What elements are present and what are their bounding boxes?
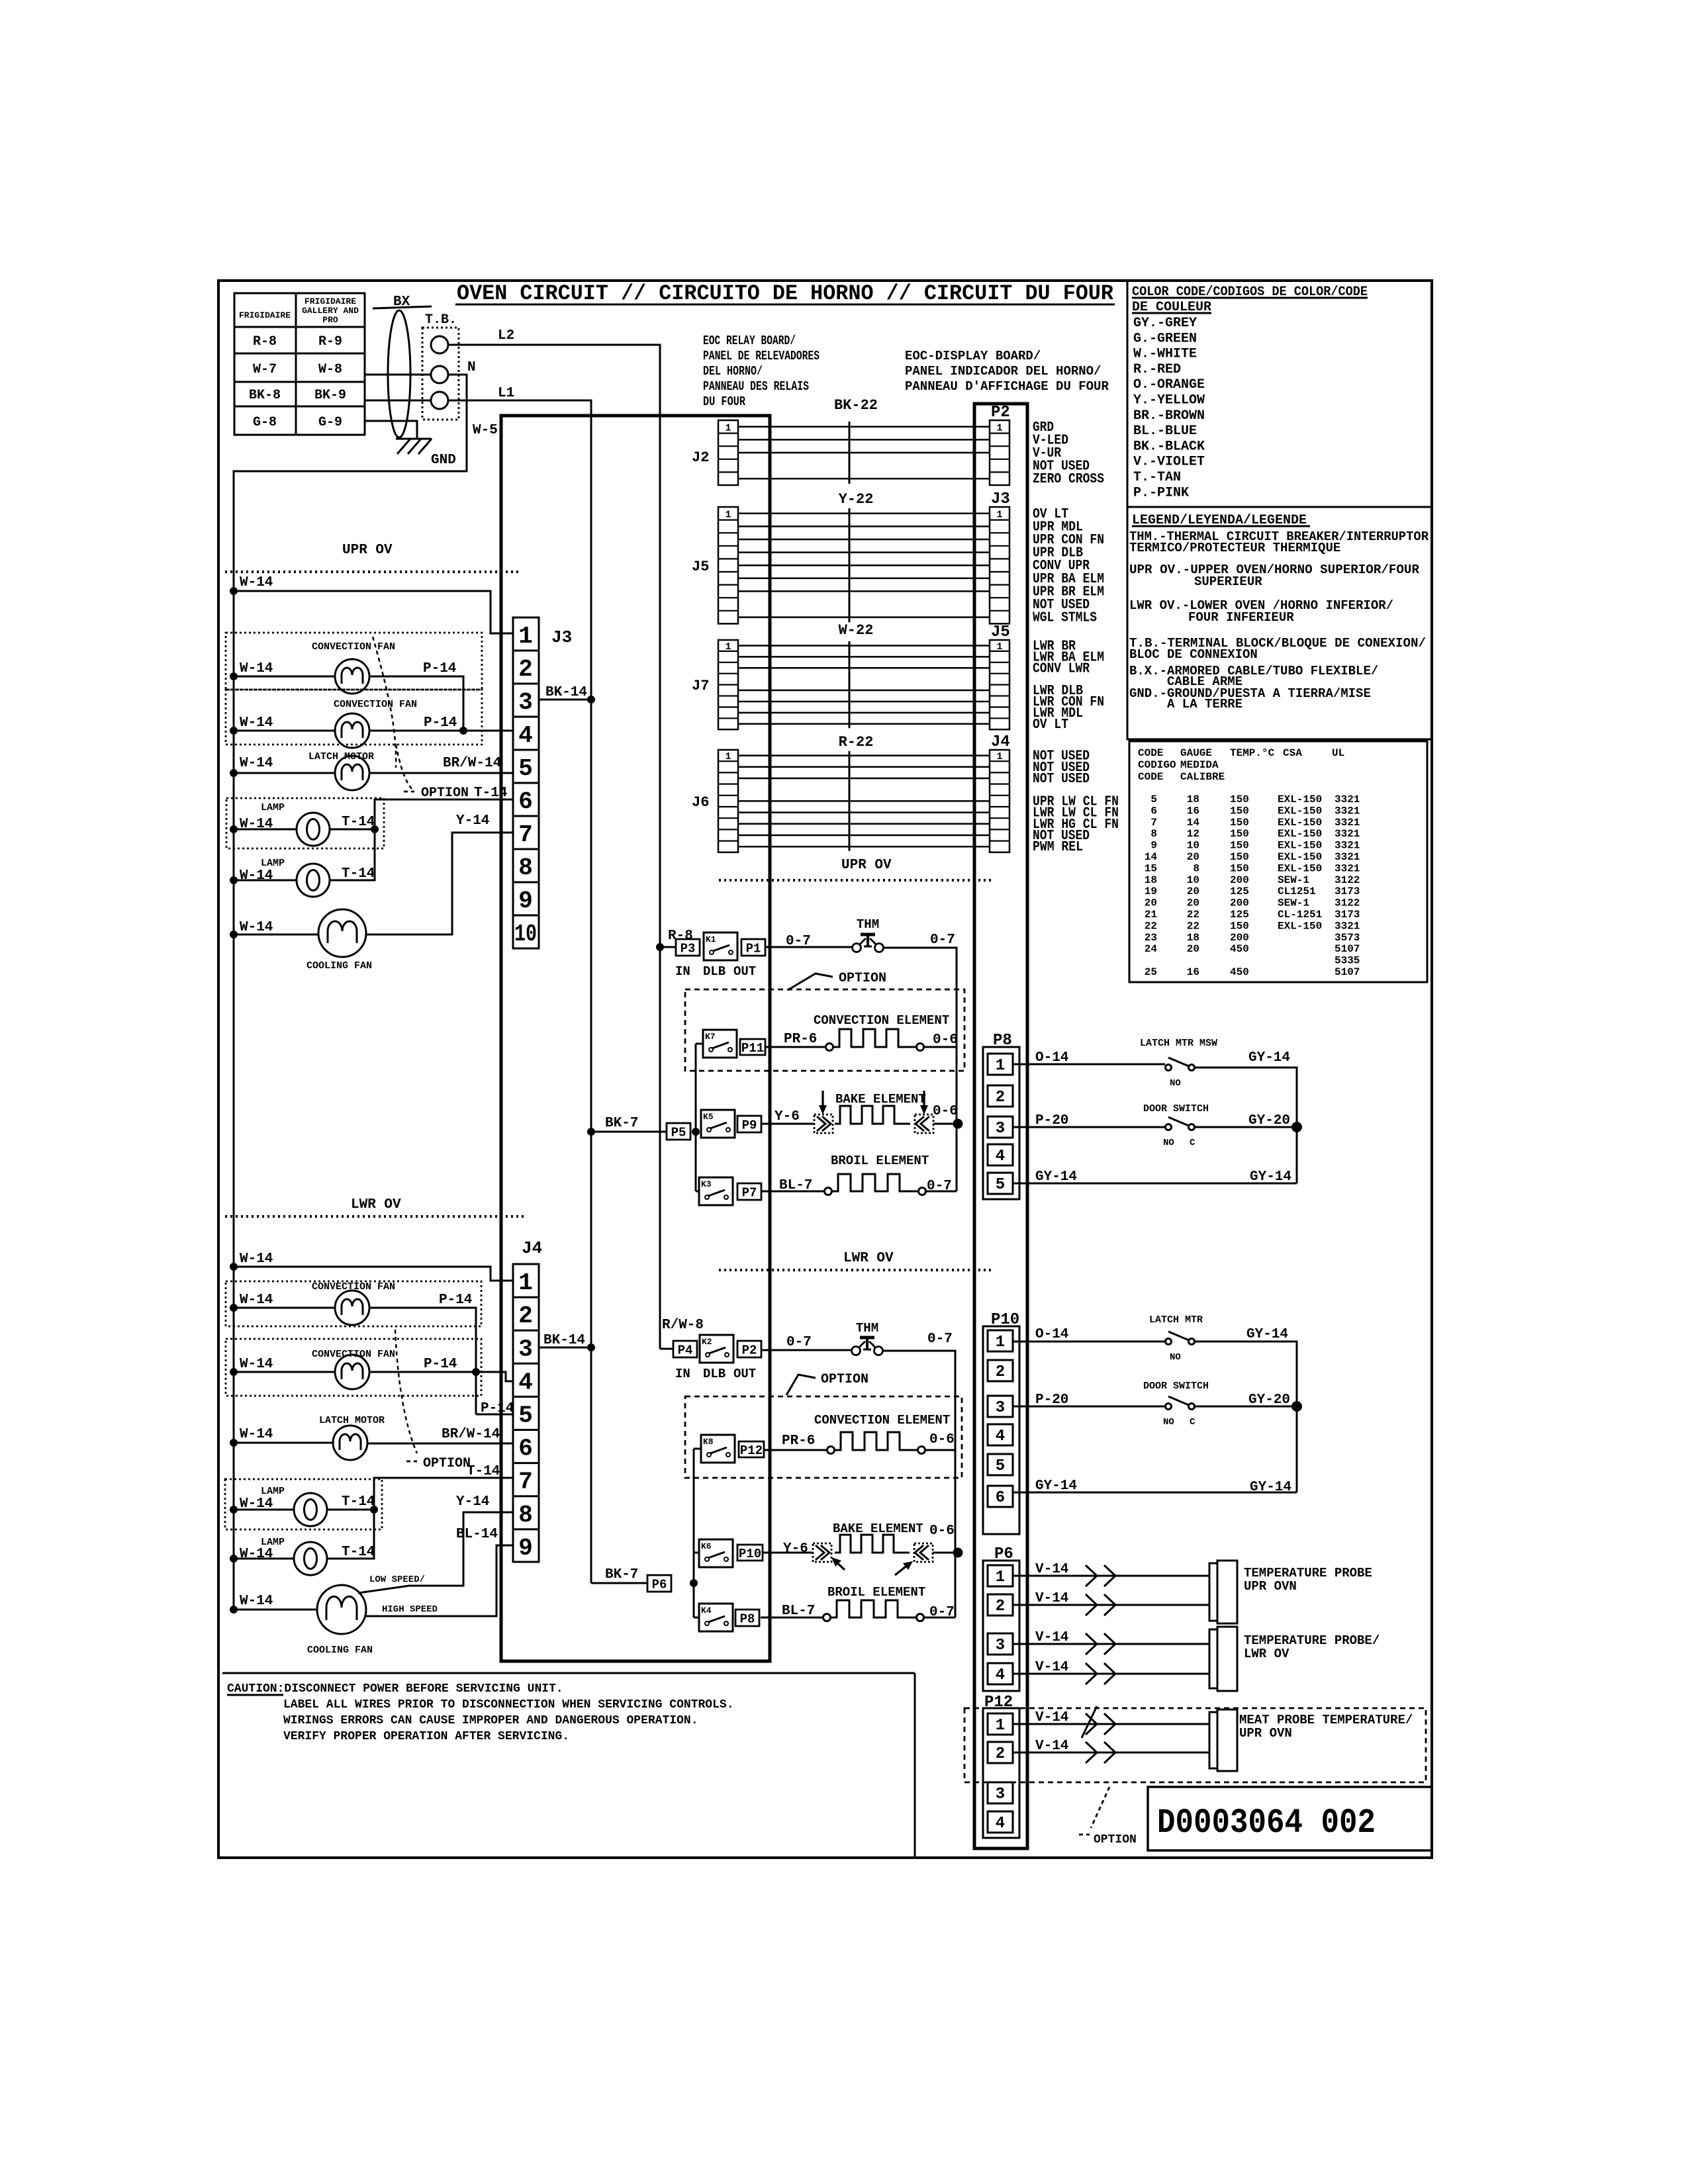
- label OPTION upper center: [788, 971, 886, 990]
- wire W-14 convection fan 2: [230, 715, 335, 735]
- svg-text:OUT: OUT: [733, 964, 756, 979]
- svg-text:20: 20: [1187, 886, 1199, 897]
- svg-text:3321: 3321: [1335, 851, 1360, 863]
- svg-text:1: 1: [725, 509, 731, 520]
- wire GY-14 latch switch upper: [1195, 1050, 1297, 1183]
- svg-text:0-6: 0-6: [933, 1104, 958, 1119]
- svg-text:15: 15: [1145, 862, 1157, 874]
- svg-text:BK.-BLACK: BK.-BLACK: [1133, 439, 1205, 454]
- svg-text:BLOC DE CONNEXION: BLOC DE CONNEXION: [1129, 647, 1258, 662]
- wire BR/W-14 to J3 pin 5: [369, 756, 513, 773]
- terminal P9: [737, 1116, 761, 1132]
- svg-text:ZERO CROSS: ZERO CROSS: [1033, 472, 1104, 487]
- svg-text:BK-22: BK-22: [834, 397, 878, 414]
- svg-text:J3: J3: [551, 627, 572, 647]
- ground GND: [396, 439, 456, 468]
- svg-text:SEW-1: SEW-1: [1278, 874, 1309, 886]
- svg-text:LAMP: LAMP: [261, 858, 285, 869]
- svg-text:8: 8: [518, 1502, 533, 1529]
- svg-text:P-14: P-14: [424, 715, 457, 731]
- connector J3: [513, 617, 572, 948]
- svg-text:R-22: R-22: [839, 734, 874, 751]
- connector J4 (display board): [990, 733, 1010, 852]
- svg-text:3321: 3321: [1335, 805, 1360, 817]
- svg-text:CONVECTION FAN: CONVECTION FAN: [312, 641, 395, 653]
- svg-text:P-14: P-14: [439, 1293, 472, 1308]
- svg-text:TEMPERATURE PROBE/: TEMPERATURE PROBE/: [1244, 1633, 1380, 1648]
- svg-text:1: 1: [996, 1334, 1005, 1351]
- svg-text:J2: J2: [692, 449, 709, 466]
- armored cable BX: [373, 295, 432, 437]
- wire V-14 P12 pin 2: [1013, 1739, 1209, 1763]
- wire Y-14 to J3 pin 7: [366, 813, 513, 934]
- svg-text:2: 2: [996, 1363, 1005, 1381]
- svg-text:EXL-150: EXL-150: [1278, 840, 1322, 852]
- connector P6 (display board): [983, 1545, 1019, 1691]
- svg-text:DU FOUR: DU FOUR: [703, 394, 745, 409]
- labels IN DLB OUT lower: [675, 1367, 756, 1381]
- svg-text:EXL-150: EXL-150: [1278, 920, 1322, 932]
- dashed option box lamp lower: [225, 1479, 382, 1529]
- svg-text:G.-GREEN: G.-GREEN: [1133, 331, 1197, 346]
- page frame: [218, 281, 1432, 1858]
- svg-text:0-6: 0-6: [929, 1432, 955, 1447]
- wire R-8 from L2 bus to P3: [656, 929, 693, 951]
- svg-text:1: 1: [518, 623, 533, 650]
- svg-text:PWM REL: PWM REL: [1033, 840, 1083, 855]
- connector P2 (display board): [990, 404, 1010, 485]
- svg-text:5: 5: [1150, 794, 1157, 805]
- svg-text:4: 4: [996, 1428, 1005, 1445]
- svg-text:6: 6: [1150, 805, 1157, 817]
- svg-text:0-7: 0-7: [930, 933, 955, 948]
- svg-text:3: 3: [996, 1786, 1005, 1803]
- wire BL-14 high speed to J4 pin 9: [366, 1527, 513, 1616]
- wire W-14 lamp upper 1: [230, 817, 297, 833]
- svg-text:CODE: CODE: [1138, 747, 1163, 759]
- svg-text:Y-14: Y-14: [456, 1494, 489, 1510]
- svg-text:3: 3: [518, 689, 533, 716]
- svg-text:GAUGE: GAUGE: [1180, 747, 1212, 759]
- svg-text:J7: J7: [692, 678, 709, 694]
- wire BK-7 to P6: [591, 1567, 647, 1583]
- svg-text:N: N: [467, 360, 476, 375]
- wire GY-14 P8 pin 5 return: [1013, 1169, 1297, 1185]
- svg-text:LABEL ALL WIRES PRIOR TO DISCO: LABEL ALL WIRES PRIOR TO DISCONNECTION W…: [283, 1698, 734, 1711]
- svg-text:LOW SPEED/: LOW SPEED/: [369, 1574, 425, 1585]
- svg-text:4: 4: [518, 722, 533, 749]
- wire O-14 P10 pin 1: [1013, 1327, 1165, 1342]
- wire harness R-22 J6 to J4: [738, 734, 990, 851]
- svg-text:J4: J4: [522, 1238, 542, 1258]
- svg-text:6: 6: [996, 1489, 1005, 1507]
- svg-text:THM: THM: [856, 1321, 878, 1336]
- oven lamp upper 1: [261, 802, 330, 846]
- option leader upper oven: [373, 637, 414, 792]
- svg-text:DOOR SWITCH: DOOR SWITCH: [1143, 1381, 1209, 1392]
- wire V-14 P12 pin 1: [1013, 1706, 1209, 1738]
- convection element lower: [764, 1413, 955, 1454]
- terminal P11: [740, 1039, 765, 1055]
- svg-text:FOUR INFERIEUR: FOUR INFERIEUR: [1188, 610, 1294, 625]
- wire GY-14 latch switch lower: [1195, 1327, 1297, 1492]
- svg-text:BK-8: BK-8: [249, 388, 281, 403]
- wire BK-14 J3 pin 3 to L1 bus: [539, 685, 595, 704]
- convection element upper: [765, 1013, 958, 1051]
- svg-text:EOC-DISPLAY BOARD/: EOC-DISPLAY BOARD/: [905, 349, 1041, 363]
- wire W-14 convection fan lower 2: [230, 1357, 335, 1376]
- wire V-14 P6 pin 4: [1013, 1660, 1209, 1684]
- wire harness BK-22 J2 to P2: [738, 397, 990, 484]
- svg-text:P12: P12: [740, 1443, 763, 1458]
- svg-text:1: 1: [996, 1057, 1005, 1075]
- wire P-14 convection fan lower 1: [369, 1293, 476, 1414]
- svg-text:WGL STMLS: WGL STMLS: [1033, 611, 1097, 626]
- svg-text:W-14: W-14: [240, 575, 273, 590]
- svg-text:2: 2: [518, 1302, 533, 1330]
- svg-text:125: 125: [1230, 886, 1249, 897]
- wire P-14 to J4 pin 5: [476, 1401, 514, 1416]
- wire W-14 convection fan 1: [230, 661, 335, 680]
- svg-text:12: 12: [1187, 828, 1199, 840]
- svg-text:18: 18: [1187, 932, 1199, 944]
- svg-text:P2: P2: [742, 1343, 757, 1358]
- svg-text:K5: K5: [703, 1112, 714, 1122]
- svg-text:3173: 3173: [1335, 909, 1360, 921]
- svg-text:150: 150: [1230, 851, 1249, 863]
- svg-text:WIRINGS ERRORS CAN CAUSE IMPRO: WIRINGS ERRORS CAN CAUSE IMPROPER AND DA…: [283, 1714, 698, 1727]
- svg-text:LWR OV: LWR OV: [351, 1197, 401, 1212]
- wire BK-9 table to terminal block: [365, 400, 431, 402]
- svg-text:OPTION: OPTION: [1094, 1833, 1137, 1846]
- svg-text:Y-14: Y-14: [456, 813, 489, 829]
- svg-text:3573: 3573: [1335, 932, 1360, 944]
- door switch upper: [1143, 1103, 1209, 1148]
- svg-text:0-7: 0-7: [927, 1332, 953, 1347]
- wire P-14 to J3 pin 4: [369, 715, 513, 735]
- dashed option box convection fan lower 2: [226, 1339, 481, 1396]
- svg-text:EXL-150: EXL-150: [1278, 828, 1322, 840]
- relay feed bus lower: [690, 1449, 701, 1617]
- svg-text:2: 2: [996, 1745, 1005, 1763]
- svg-text:21: 21: [1145, 909, 1157, 921]
- svg-text:CONV LWR: CONV LWR: [1033, 661, 1090, 676]
- wire BK-7 to P5: [587, 1116, 667, 1136]
- svg-text:GND: GND: [431, 453, 456, 468]
- svg-text:9: 9: [518, 887, 533, 915]
- svg-text:W-14: W-14: [240, 661, 273, 676]
- option leader lower oven: [395, 1330, 417, 1461]
- svg-text:BR/W-14: BR/W-14: [443, 756, 501, 771]
- svg-text:150: 150: [1230, 794, 1249, 805]
- svg-text:K4: K4: [701, 1606, 712, 1615]
- wire W-8 table to terminal block: [365, 374, 431, 376]
- wire 0-7 THM to bus lower: [883, 1332, 955, 1617]
- dashed option box meat probe: [964, 1708, 1426, 1782]
- svg-text:0-6: 0-6: [929, 1524, 955, 1539]
- wire GY-14 P10 pin 6 return: [1013, 1479, 1297, 1495]
- svg-text:W-8: W-8: [318, 362, 342, 377]
- wire T-14 to J4 pin 7: [374, 1464, 513, 1510]
- svg-text:DOOR SWITCH: DOOR SWITCH: [1143, 1103, 1209, 1115]
- terminal P2 (relay): [737, 1341, 761, 1357]
- svg-text:R.-RED: R.-RED: [1133, 362, 1181, 377]
- section separator lower oven: [225, 1215, 526, 1218]
- svg-text:OVEN CIRCUIT // CIRCUITO DE HO: OVEN CIRCUIT // CIRCUITO DE HORNO // CIR…: [457, 281, 1114, 306]
- svg-text:Y.-YELLOW: Y.-YELLOW: [1133, 393, 1205, 408]
- connector J2 (relay board): [692, 420, 738, 485]
- svg-text:UPR OVN: UPR OVN: [1239, 1726, 1292, 1741]
- svg-text:3122: 3122: [1335, 897, 1360, 909]
- svg-text:P6: P6: [652, 1578, 667, 1592]
- terminal P7: [737, 1183, 761, 1200]
- svg-text:10: 10: [514, 921, 537, 948]
- svg-text:GALLERY AND: GALLERY AND: [302, 306, 359, 316]
- wire W-14 latch motor lower: [230, 1427, 333, 1447]
- svg-text:D0003064 002: D0003064 002: [1157, 1803, 1376, 1843]
- svg-text:8: 8: [518, 854, 533, 882]
- color code box: [1127, 281, 1432, 507]
- svg-text:W-14: W-14: [240, 756, 273, 771]
- svg-text:DEL HORNO/: DEL HORNO/: [703, 364, 763, 379]
- svg-text:18: 18: [1187, 794, 1199, 805]
- svg-text:0-7: 0-7: [786, 1335, 812, 1350]
- wire L2: [448, 328, 660, 1349]
- connector P8 (display board): [983, 1032, 1019, 1199]
- center separator lower oven: [719, 1269, 994, 1271]
- meat probe upper oven: [1209, 1709, 1413, 1771]
- svg-text:O.-ORANGE: O.-ORANGE: [1133, 377, 1205, 392]
- svg-text:W-14: W-14: [240, 715, 273, 731]
- svg-text:BL-14: BL-14: [456, 1527, 498, 1542]
- svg-text:SEW-1: SEW-1: [1278, 897, 1309, 909]
- pin labels J4: [1033, 749, 1119, 856]
- svg-text:BROIL ELEMENT: BROIL ELEMENT: [827, 1585, 925, 1600]
- center separator upper oven: [719, 879, 994, 882]
- svg-text:L2: L2: [498, 328, 514, 343]
- svg-text:LAMP: LAMP: [261, 802, 285, 813]
- svg-text:W-14: W-14: [240, 1427, 273, 1442]
- svg-text:K6: K6: [701, 1541, 712, 1551]
- svg-text:GY.-GREY: GY.-GREY: [1133, 316, 1197, 331]
- svg-text:W-14: W-14: [240, 1547, 273, 1562]
- svg-text:W-14: W-14: [240, 1251, 273, 1267]
- relay K5: [701, 1110, 735, 1138]
- wire W-14 to J3 pin 1: [230, 575, 513, 633]
- svg-text:BK-7: BK-7: [605, 1116, 638, 1131]
- wire P-14 convection fan 1: [369, 661, 463, 731]
- svg-text:450: 450: [1230, 966, 1249, 978]
- svg-text:CL-1251: CL-1251: [1278, 909, 1322, 921]
- EOC display board caption: [905, 349, 1109, 394]
- wire G-9 table to ground: [365, 421, 417, 439]
- svg-text:P8: P8: [740, 1612, 755, 1627]
- wire 0-7 P1 to THM upper: [765, 934, 852, 949]
- convection fan motor upper 2: [334, 699, 417, 748]
- svg-text:PANEL DE RELEVADORES: PANEL DE RELEVADORES: [703, 349, 820, 363]
- svg-text:PR-6: PR-6: [784, 1032, 817, 1047]
- svg-text:W-14: W-14: [240, 920, 273, 935]
- svg-text:W-5: W-5: [473, 423, 498, 438]
- svg-text:R/W-8: R/W-8: [662, 1318, 704, 1333]
- svg-text:BAKE ELEMENT: BAKE ELEMENT: [835, 1092, 926, 1107]
- svg-text:1: 1: [996, 1717, 1005, 1735]
- svg-text:TERMICO/PROTECTEUR THERMIQUE: TERMICO/PROTECTEUR THERMIQUE: [1129, 541, 1340, 555]
- svg-text:C: C: [1190, 1417, 1196, 1428]
- svg-text:19: 19: [1145, 886, 1157, 897]
- caution box: [222, 1673, 915, 1858]
- svg-text:LATCH MOTOR: LATCH MOTOR: [319, 1415, 385, 1426]
- svg-text:P11: P11: [741, 1041, 764, 1056]
- wire 0-7 THM to bus upper: [884, 933, 957, 1191]
- svg-text:150: 150: [1230, 828, 1249, 840]
- svg-text:GND.-GROUND/PUESTA A TIERRA/MI: GND.-GROUND/PUESTA A TIERRA/MISE: [1129, 686, 1371, 701]
- svg-text:1: 1: [996, 509, 1002, 520]
- svg-text:4: 4: [996, 1666, 1005, 1684]
- svg-text:BROIL ELEMENT: BROIL ELEMENT: [831, 1154, 929, 1168]
- wire T-14 lamp lower 1: [327, 1494, 378, 1514]
- wire W-14 lamp lower 1: [230, 1496, 294, 1514]
- svg-text:Y-6: Y-6: [783, 1541, 808, 1557]
- EOC display board: [974, 404, 1027, 1848]
- svg-text:OPTION: OPTION: [423, 1456, 471, 1471]
- label OPTION lower center: [786, 1372, 868, 1395]
- svg-text:2: 2: [996, 1598, 1005, 1615]
- wire W-14 lamp upper 2: [230, 868, 297, 884]
- svg-text:22: 22: [1187, 909, 1199, 921]
- latch motor lower: [319, 1415, 385, 1460]
- connector J7 (relay board): [692, 640, 738, 729]
- bake element lower: [763, 1522, 963, 1575]
- wire W-14 cooling fan upper: [230, 920, 318, 938]
- svg-text:T.B.: T.B.: [425, 312, 457, 328]
- wire P-14 to J4 pin 4: [369, 1357, 513, 1381]
- wire W-14 to J4 pin 1: [230, 1251, 513, 1281]
- wire gauge table: [1129, 741, 1427, 982]
- svg-text:18: 18: [1145, 874, 1157, 886]
- broil element upper: [761, 1154, 957, 1195]
- svg-text:P9: P9: [742, 1118, 757, 1133]
- svg-text:R-9: R-9: [318, 334, 342, 349]
- svg-text:W-7: W-7: [253, 362, 277, 377]
- svg-text:1: 1: [725, 751, 731, 762]
- svg-text:P10: P10: [739, 1547, 761, 1561]
- title OVEN CIRCUIT // CIRCUITO DE HORNO // CIRCUIT DU FOUR: [455, 281, 1115, 306]
- relay K8: [701, 1435, 735, 1463]
- cooling fan motor lower: [307, 1585, 373, 1656]
- svg-text:10: 10: [1187, 874, 1199, 886]
- connector J5 (relay board): [692, 507, 738, 623]
- svg-text:MEDIDA: MEDIDA: [1180, 759, 1219, 771]
- wire N / W-5: [234, 360, 498, 1610]
- svg-text:EOC RELAY BOARD/: EOC RELAY BOARD/: [703, 334, 796, 348]
- wire O-14 P8 pin 1: [1013, 1050, 1165, 1066]
- svg-text:SUPERIEUR: SUPERIEUR: [1194, 574, 1262, 589]
- svg-text:L1: L1: [498, 386, 514, 401]
- svg-text:150: 150: [1230, 920, 1249, 932]
- svg-text:UPR OV.-UPPER OVEN/HORNO SUPER: UPR OV.-UPPER OVEN/HORNO SUPERIOR/FOUR: [1129, 563, 1420, 577]
- svg-text:5107: 5107: [1335, 943, 1360, 955]
- svg-text:20: 20: [1145, 897, 1157, 909]
- svg-text:HIGH SPEED: HIGH SPEED: [382, 1604, 438, 1615]
- EOC relay board: [501, 416, 770, 1661]
- svg-text:3321: 3321: [1335, 817, 1360, 829]
- svg-text:EXL-150: EXL-150: [1278, 805, 1322, 817]
- wire 0-7 P2 to THM lower: [761, 1335, 851, 1350]
- svg-text:20: 20: [1187, 897, 1199, 909]
- svg-text:LATCH MTR: LATCH MTR: [1149, 1314, 1203, 1326]
- wire harness W-22 J7 to J5: [738, 622, 990, 728]
- oven lamp lower 1: [261, 1486, 327, 1526]
- model code table: [234, 293, 365, 435]
- svg-text:G-9: G-9: [318, 415, 342, 430]
- dashed option box convection element upper: [685, 989, 964, 1071]
- svg-text:BR/W-14: BR/W-14: [442, 1427, 500, 1442]
- svg-text:14: 14: [1187, 817, 1200, 829]
- latch motor micro switch upper: [1140, 1038, 1217, 1089]
- svg-text:3: 3: [518, 1336, 533, 1363]
- svg-text:5: 5: [518, 1402, 533, 1429]
- wire T-14 lamp upper 2: [330, 829, 375, 882]
- svg-text:CONVECTION ELEMENT: CONVECTION ELEMENT: [814, 1013, 949, 1028]
- terminal P1: [741, 939, 765, 956]
- wire GY-20 door switch upper: [1195, 1113, 1302, 1132]
- svg-text:PANEL INDICADOR DEL HORNO/: PANEL INDICADOR DEL HORNO/: [905, 364, 1101, 379]
- svg-text:1: 1: [996, 1569, 1005, 1586]
- svg-text:2: 2: [996, 1089, 1005, 1107]
- svg-text:3321: 3321: [1335, 794, 1360, 805]
- dashed option box lamp upper: [226, 798, 384, 848]
- svg-text:EXL-150: EXL-150: [1278, 851, 1322, 863]
- svg-text:200: 200: [1230, 932, 1249, 944]
- svg-text:IN: IN: [675, 964, 690, 979]
- legend box: [1127, 507, 1432, 739]
- svg-text:7: 7: [1150, 817, 1157, 829]
- svg-text:CODE: CODE: [1138, 771, 1163, 783]
- svg-text:W-14: W-14: [240, 1594, 273, 1609]
- latch motor switch lower: [1149, 1314, 1203, 1363]
- wire P-20 P8 pin 3: [1013, 1113, 1165, 1128]
- svg-text:TEMP.°C: TEMP.°C: [1230, 747, 1275, 759]
- latch motor upper: [308, 751, 374, 790]
- svg-text:1: 1: [725, 422, 731, 433]
- svg-text:P.-PINK: P.-PINK: [1133, 485, 1189, 500]
- label OPTION T-14 upper: [421, 786, 507, 801]
- terminal P4: [673, 1341, 697, 1357]
- svg-text:8: 8: [1193, 862, 1199, 874]
- svg-text:3321: 3321: [1335, 840, 1360, 852]
- svg-text:GY-14: GY-14: [1246, 1327, 1288, 1342]
- svg-text:BK-7: BK-7: [605, 1567, 638, 1582]
- connector J3 (display board): [990, 490, 1010, 623]
- svg-text:CONVECTION ELEMENT: CONVECTION ELEMENT: [814, 1413, 950, 1428]
- svg-text:150: 150: [1230, 840, 1249, 852]
- dashed option box convection element lower: [685, 1396, 962, 1478]
- svg-text:20: 20: [1187, 851, 1199, 863]
- svg-text:3321: 3321: [1335, 862, 1360, 874]
- svg-text:LATCH MTR MSW: LATCH MTR MSW: [1140, 1038, 1217, 1049]
- svg-text:LAMP: LAMP: [261, 1486, 285, 1497]
- svg-text:MEAT PROBE TEMPERATURE/: MEAT PROBE TEMPERATURE/: [1239, 1713, 1413, 1727]
- svg-text:5: 5: [996, 1457, 1005, 1475]
- svg-text:PR-6: PR-6: [782, 1433, 815, 1449]
- wire V-14 P6 pin 2: [1013, 1591, 1209, 1615]
- svg-text:0-6: 0-6: [933, 1032, 958, 1048]
- svg-text:3: 3: [996, 1637, 1005, 1655]
- svg-text:P-14: P-14: [424, 1357, 457, 1372]
- svg-text:V.-VIOLET: V.-VIOLET: [1133, 455, 1205, 470]
- svg-text:10: 10: [1187, 840, 1199, 852]
